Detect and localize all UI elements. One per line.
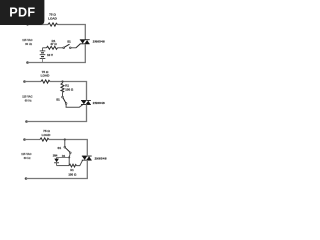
wire gate lead circuit 1	[76, 44, 80, 48]
node gate junction circuit 3	[68, 156, 70, 158]
svg-text:60 Hz: 60 Hz	[25, 99, 32, 103]
svg-text:PDF: PDF	[9, 6, 35, 20]
wire node to diode circuit 3	[57, 156, 70, 158]
wire right rail circuit 2	[86, 82, 88, 101]
node junction on top rail circuit 3	[64, 138, 66, 140]
switch S1 circuit 2	[62, 96, 64, 98]
node: AC terminal top-left (hidden behind PDF badge)	[26, 23, 28, 25]
wire gate branch horizontal	[43, 47, 47, 49]
wire top rail right segment circuit 2	[50, 81, 87, 83]
wire top rail left segment circuit 2	[25, 81, 42, 83]
triac U1 (2N6346) circuit 1	[80, 39, 90, 44]
wire right rail circuit 3	[86, 140, 88, 157]
wire top rail left segment	[28, 24, 49, 26]
triac U1 (2N6346) circuit 3	[82, 156, 92, 161]
resistor R1 100 ohm circuit 3	[69, 164, 77, 167]
resistor R1 47 ohm circuit 1	[47, 46, 58, 49]
svg-text:S1: S1	[58, 146, 62, 150]
wire right rail lower	[84, 44, 86, 63]
wire drop to switch circuit 3	[64, 140, 66, 147]
wire bottom rail circuit 2	[27, 121, 88, 123]
switch S1 circuit 3	[64, 146, 66, 148]
wire resistor to switch circuit 2	[62, 92, 64, 96]
svg-text:S1: S1	[67, 40, 71, 44]
svg-text:60 Hz: 60 Hz	[24, 156, 31, 160]
wire bottom branch circuit 3	[57, 165, 69, 167]
svg-text:S1: S1	[56, 98, 60, 102]
wire switch to gate	[71, 47, 76, 49]
battery B1 circuit 1	[40, 48, 46, 63]
wire bottom rail circuit 3	[26, 178, 88, 180]
wire switch to node circuit 3	[68, 154, 71, 157]
svg-text:60 Hz: 60 Hz	[25, 42, 32, 46]
svg-text:LOAD: LOAD	[42, 133, 52, 137]
wire to switch	[58, 47, 64, 49]
svg-text:1N4: 1N4	[53, 155, 58, 158]
svg-text:47 Ω: 47 Ω	[50, 42, 57, 46]
wire top rail right segment circuit 3	[49, 139, 88, 141]
diode D1 circuit 3	[54, 157, 59, 165]
PDF badge	[0, 0, 50, 30]
node: AC terminal bottom-left circuit 3	[25, 177, 28, 180]
wire gate lead circuit 3	[77, 160, 83, 165]
svg-text:R1: R1	[70, 169, 74, 172]
wire top rail left segment circuit 3	[25, 139, 41, 141]
node: AC terminal bottom-left circuit 1	[26, 61, 29, 64]
svg-text:10 V: 10 V	[47, 53, 53, 57]
resistor LOAD circuit 2	[41, 80, 50, 83]
node junction on top rail circuit 2	[61, 80, 63, 82]
wire bottom rail circuit 1	[28, 62, 86, 64]
svg-text:2N6346: 2N6346	[95, 156, 107, 160]
triac U1 (2N6346) circuit 2	[81, 100, 91, 105]
resistor LOAD circuit 3	[40, 138, 49, 141]
wire right rail upper	[84, 25, 86, 41]
switch S1 circuit 1	[63, 47, 65, 49]
svg-text:115 VAC: 115 VAC	[22, 95, 32, 99]
svg-text:115 VAC: 115 VAC	[21, 152, 31, 156]
wire switch to gate circuit 2	[66, 104, 83, 107]
svg-text:2N6346: 2N6346	[93, 101, 105, 105]
node: AC terminal bottom-left circuit 2	[25, 120, 28, 123]
resistor R1 100 ohm circuit 2 (vertical)	[62, 82, 64, 84]
wire node drop circuit 3	[68, 157, 70, 165]
svg-text:100 Ω: 100 Ω	[68, 173, 77, 177]
svg-text:100 Ω: 100 Ω	[65, 87, 74, 91]
resistor LOAD (75 ohm) circuit 1	[48, 23, 58, 26]
wire top rail right segment	[58, 24, 86, 26]
node: AC terminal top-left circuit 3	[23, 138, 26, 141]
svg-text:115 VAC: 115 VAC	[22, 38, 32, 42]
node: AC terminal top-left circuit 2	[23, 80, 26, 83]
svg-text:2N6346: 2N6346	[93, 40, 105, 44]
svg-text:LOAD: LOAD	[41, 74, 51, 78]
